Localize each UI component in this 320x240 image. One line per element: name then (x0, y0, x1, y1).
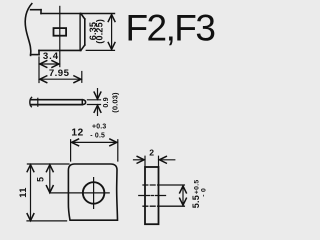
svg-text:- 0: - 0 (201, 188, 208, 197)
dimension 5 (49, 165, 51, 193)
svg-text:3.4: 3.4 (43, 51, 59, 62)
dimension 6.35 (0.25) (111, 15, 113, 50)
hole center line (59, 6, 61, 66)
bar break tick (37, 98, 39, 106)
arrow down to bar top (97, 89, 99, 99)
svg-text:0.9: 0.9 (101, 97, 110, 107)
tab bottom edge (39, 49, 81, 51)
dimension 7.95 (81, 72, 83, 83)
svg-text:- 0.5: - 0.5 (90, 133, 105, 140)
tab end chamfer bottom (81, 45, 85, 50)
bottom extension line (86, 49, 114, 51)
hidden hole line bottom (143, 205, 158, 207)
tab right edge (84, 19, 86, 45)
svg-text:(0.03): (0.03) (110, 92, 119, 113)
hole crosshair vertical (93, 178, 95, 209)
svg-text:+0.3: +0.3 (92, 124, 106, 131)
svg-text:11: 11 (18, 187, 28, 198)
svg-text:+0.5: +0.5 (194, 179, 201, 194)
tab bar outline (31, 100, 83, 105)
body/tab step top (40, 10, 42, 14)
extension lines 0.9 (87, 100, 100, 105)
body/tab step bottom (38, 50, 40, 54)
bar left break curve (30, 97, 32, 106)
tab face outline (68, 164, 117, 220)
svg-text:(0.25): (0.25) (95, 19, 105, 44)
tab hole rectangle (54, 28, 67, 36)
body top edge (31, 9, 41, 11)
svg-text:7.95: 7.95 (49, 68, 70, 79)
dimension 11 (30, 165, 32, 221)
body bottom edge (31, 54, 39, 56)
top extension line (27, 163, 69, 165)
dimension 5.5 +0.5/-0 (182, 186, 184, 205)
center line dash-dot (139, 195, 166, 197)
tab end chamfer top (81, 14, 85, 20)
svg-text:12: 12 (71, 128, 83, 139)
tab edge rectangle (145, 167, 159, 224)
tab top edge + extension line (41, 13, 115, 15)
extension lines up (145, 156, 159, 166)
tab fold line (79, 14, 81, 51)
arrow left to right edge (159, 159, 174, 161)
bar right tip (84, 100, 86, 105)
dimension 3.4 (38, 57, 40, 83)
svg-text:5: 5 (36, 177, 46, 182)
arrow right to left edge (134, 159, 145, 161)
dimension 12 +0.3/-0.5 (71, 140, 118, 161)
bottom extension line (27, 220, 67, 222)
svg-text:F2,F3: F2,F3 (126, 7, 215, 48)
hole circle (83, 182, 105, 204)
svg-text:5.5: 5.5 (191, 195, 201, 208)
break line (25, 4, 32, 56)
hole crosshair horizontal (50, 192, 109, 194)
svg-text:2: 2 (149, 148, 154, 158)
hidden hole line top (143, 184, 158, 186)
arrow up to bar bottom (97, 105, 99, 115)
